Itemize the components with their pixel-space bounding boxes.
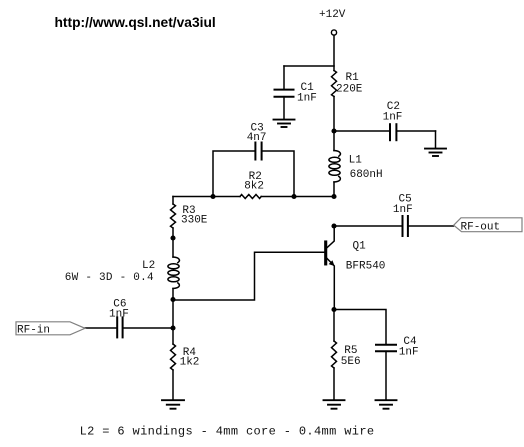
svg-text:RF-in: RF-in <box>17 324 50 336</box>
transistor Q1 BFR540 <box>326 226 335 310</box>
wire node to C2 <box>334 130 389 132</box>
svg-text:330E: 330E <box>181 215 208 227</box>
capacitor C2 <box>390 124 436 148</box>
base bar <box>324 242 327 264</box>
node C3/R2 right junction <box>291 194 296 199</box>
svg-text:1nF: 1nF <box>383 111 403 123</box>
wire collector to C5 <box>334 225 402 227</box>
RF-out port flag <box>454 218 522 234</box>
svg-text:1nF: 1nF <box>109 308 129 320</box>
emitter lead <box>327 259 334 310</box>
node L2 bottom / base tap <box>170 297 175 302</box>
svg-text:1nF: 1nF <box>297 92 317 104</box>
ground (C2) <box>425 149 446 156</box>
node +12V supply terminal <box>331 30 336 35</box>
svg-text:http://www.qsl.net/va3iul: http://www.qsl.net/va3iul <box>55 15 216 30</box>
capacitor C5 <box>403 216 454 236</box>
svg-text:Q1: Q1 <box>353 241 367 253</box>
svg-text:8k2: 8k2 <box>244 181 264 193</box>
svg-text:BFR540: BFR540 <box>346 261 386 273</box>
resistor R2 <box>240 195 261 199</box>
emitter arrow <box>329 260 335 266</box>
node R3/L2 junction <box>170 235 175 240</box>
wire mid rail left section <box>173 196 240 198</box>
capacitor C6 <box>117 317 173 337</box>
resistor R5 <box>332 310 337 400</box>
wire C3 branch right <box>262 151 294 197</box>
ground (C1) <box>274 120 295 127</box>
wire top rail to C1 <box>284 65 334 67</box>
capacitor C3 <box>255 143 261 160</box>
capacitor C4 <box>376 345 396 400</box>
ground (R5) <box>324 400 345 409</box>
node L1 bottom / mid rail <box>331 194 336 199</box>
svg-text:1k2: 1k2 <box>180 357 200 369</box>
resistor R4 <box>171 328 176 400</box>
inductor L1 <box>329 131 341 197</box>
wire base connection <box>173 252 324 300</box>
node R1/C2/L1 junction <box>331 128 336 133</box>
RF-in port flag <box>16 322 85 337</box>
svg-text:4n7: 4n7 <box>247 132 267 144</box>
svg-text:5E6: 5E6 <box>341 356 361 368</box>
wire mid rail right section <box>261 196 334 198</box>
wire +12V terminal to R1 top <box>333 36 335 71</box>
svg-text:L2: L2 <box>142 260 155 272</box>
wire L2 junction down to input node <box>172 300 174 329</box>
svg-text:R1: R1 <box>346 72 360 84</box>
node C6/R4 input junction <box>170 325 175 330</box>
wire C3 branch left <box>213 151 255 197</box>
svg-text:L1: L1 <box>349 155 363 167</box>
resistor R1 <box>332 71 337 97</box>
wire R1 bottom to node <box>333 97 335 132</box>
capacitor C1 <box>275 66 294 119</box>
wire emitter node to C4 <box>334 310 386 345</box>
node emitter junction <box>331 307 336 312</box>
svg-text:L2 = 6 windings - 4mm core - 0: L2 = 6 windings - 4mm core - 0.4mm wire <box>80 425 375 439</box>
wire RF-in flag to C6 <box>85 327 116 329</box>
node C3/R2 left junction <box>210 194 215 199</box>
node collector junction <box>331 223 336 228</box>
ground (R4) <box>162 400 184 409</box>
inductor L2 <box>168 238 180 300</box>
ground (C4) <box>376 400 397 409</box>
svg-text:1nF: 1nF <box>399 347 419 359</box>
svg-text:1nF: 1nF <box>393 204 413 216</box>
resistor R3 <box>171 197 176 238</box>
svg-text:6W - 3D - 0.4: 6W - 3D - 0.4 <box>65 272 154 284</box>
collector lead <box>327 226 334 248</box>
svg-text:RF-out: RF-out <box>461 222 501 234</box>
svg-text:+12V: +12V <box>319 9 346 21</box>
svg-text:220E: 220E <box>336 84 363 96</box>
svg-text:680nH: 680nH <box>350 169 383 181</box>
